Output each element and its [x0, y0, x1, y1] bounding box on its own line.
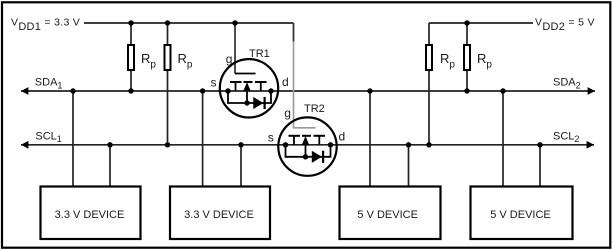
svg-text:TR2: TR2 — [304, 103, 325, 115]
svg-text:g: g — [226, 52, 233, 66]
svg-text:g: g — [284, 106, 291, 120]
svg-text:d: d — [339, 129, 346, 143]
svg-text:TR1: TR1 — [249, 48, 270, 60]
svg-text:5 V DEVICE: 5 V DEVICE — [490, 209, 551, 221]
svg-text:3.3 V DEVICE: 3.3 V DEVICE — [55, 209, 125, 221]
svg-text:s: s — [211, 75, 217, 89]
svg-text:s: s — [268, 130, 274, 144]
svg-text:5 V DEVICE: 5 V DEVICE — [357, 209, 418, 221]
svg-text:3.3 V DEVICE: 3.3 V DEVICE — [184, 209, 254, 221]
svg-text:d: d — [282, 75, 289, 89]
